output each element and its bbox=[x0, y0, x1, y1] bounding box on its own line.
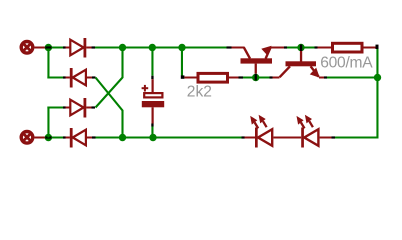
wire: row2 right net (2k2 - Q1 base - Q2) bbox=[243, 77, 270, 79]
diode D3 (row3, pointing right) bbox=[66, 98, 96, 118]
wire: top rail black pin overlaps bbox=[63, 46, 318, 48]
node junction (377.5,77.5) bbox=[374, 74, 381, 81]
diode D1 (top rail, pointing right) bbox=[66, 38, 92, 58]
transistor Q2 (NPN, base up to top rail, legs down) bbox=[273, 44, 328, 79]
terminal X2 (circle-X connector, bottom left) bbox=[21, 132, 33, 144]
bottom plate (filled) bbox=[142, 101, 164, 107]
node B junction (48,137.5) bbox=[45, 134, 52, 141]
wire: vertical down to 2k2 bbox=[181, 49, 183, 76]
diode D2 (row2, pointing left) bbox=[66, 68, 96, 88]
lower lead bbox=[152, 107, 154, 123]
resistor R1 2k2 bbox=[184, 73, 243, 82]
node junction Q2 base (301,47.5) bbox=[297, 44, 304, 51]
wire: X crossing diagonal (D2 right -> bottom rail vertical) bbox=[96, 78, 123, 137]
wire: row2 left horizontal bbox=[47, 77, 63, 79]
wire: top rail green segments bbox=[52, 47, 315, 49]
wire: left vertical row3 down to node B bbox=[47, 107, 49, 138]
wire: bottom rail green segments bbox=[52, 137, 379, 139]
wire: Q2 emitter to right node bbox=[327, 77, 375, 79]
wire: X crossing diagonal (node A vertical -> D3 right) bbox=[96, 49, 123, 108]
top plate (hollow) bbox=[144, 93, 162, 97]
wire: left vertical node A down to row2 bbox=[47, 49, 49, 79]
svg-text:600/mA: 600/mA bbox=[320, 55, 373, 72]
wire: row3 left horizontal bbox=[47, 107, 63, 109]
node A junction (48,47.5) bbox=[45, 44, 52, 51]
node junction bottom rail at x=122.5 bbox=[119, 134, 126, 141]
LED1 (bottom rail, pointing left) bbox=[245, 115, 302, 148]
node junction bottom rail cap bbox=[149, 134, 156, 141]
wire: right vertical net bbox=[376, 49, 378, 76]
plus sign bbox=[142, 87, 149, 89]
terminal X1 (circle-X connector, top left) bbox=[21, 42, 33, 54]
LED2 (bottom rail, pointing left) bbox=[297, 115, 332, 148]
pin wire from X2 to node bbox=[35, 137, 46, 139]
node junction top rail cap bbox=[149, 44, 156, 51]
capacitor C1 (electrolytic) vertical at x=152.5 bbox=[142, 44, 165, 141]
transistor Q1 (NPN, legs up to top rail, base down) bbox=[232, 46, 285, 74]
node junction top rail at x=182 bbox=[178, 44, 185, 51]
node junction top rail at x=122.5 bbox=[119, 44, 126, 51]
node junction Q1 base (256,77.5) bbox=[252, 74, 259, 81]
resistor R2 600/mA bbox=[318, 43, 379, 52]
pin wire from X1 to node bbox=[35, 47, 46, 49]
diode D4 (bottom rail, pointing left) bbox=[66, 128, 93, 148]
svg-text:2k2: 2k2 bbox=[187, 84, 212, 101]
